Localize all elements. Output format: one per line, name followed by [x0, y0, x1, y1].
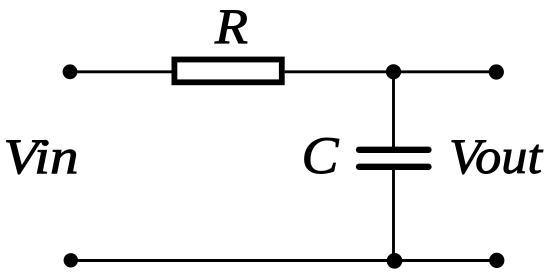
- resistor R: [174, 60, 281, 83]
- wire top-left (Vin to resistor): [70, 70, 172, 73]
- wire node A down to capacitor: [392, 72, 395, 147]
- capacitor C bottom plate: [359, 164, 429, 170]
- svg-text:Vin: Vin: [4, 128, 79, 184]
- terminal dot bottom-left: [64, 253, 78, 267]
- wire capacitor down to node B: [392, 170, 395, 261]
- bottom wire: [71, 259, 497, 262]
- svg-text:C: C: [302, 127, 340, 185]
- capacitor C top plate: [359, 147, 429, 153]
- junction node B: [387, 253, 403, 269]
- svg-text:R: R: [214, 0, 248, 54]
- svg-text:Vout: Vout: [449, 128, 543, 184]
- wire node A to Vout terminal: [394, 70, 497, 73]
- terminal dot Vin top: [63, 64, 78, 79]
- terminal dot Vout top: [489, 64, 504, 79]
- wire resistor to node A: [285, 70, 394, 73]
- terminal dot bottom-right: [489, 253, 504, 268]
- junction node A: [386, 64, 401, 79]
